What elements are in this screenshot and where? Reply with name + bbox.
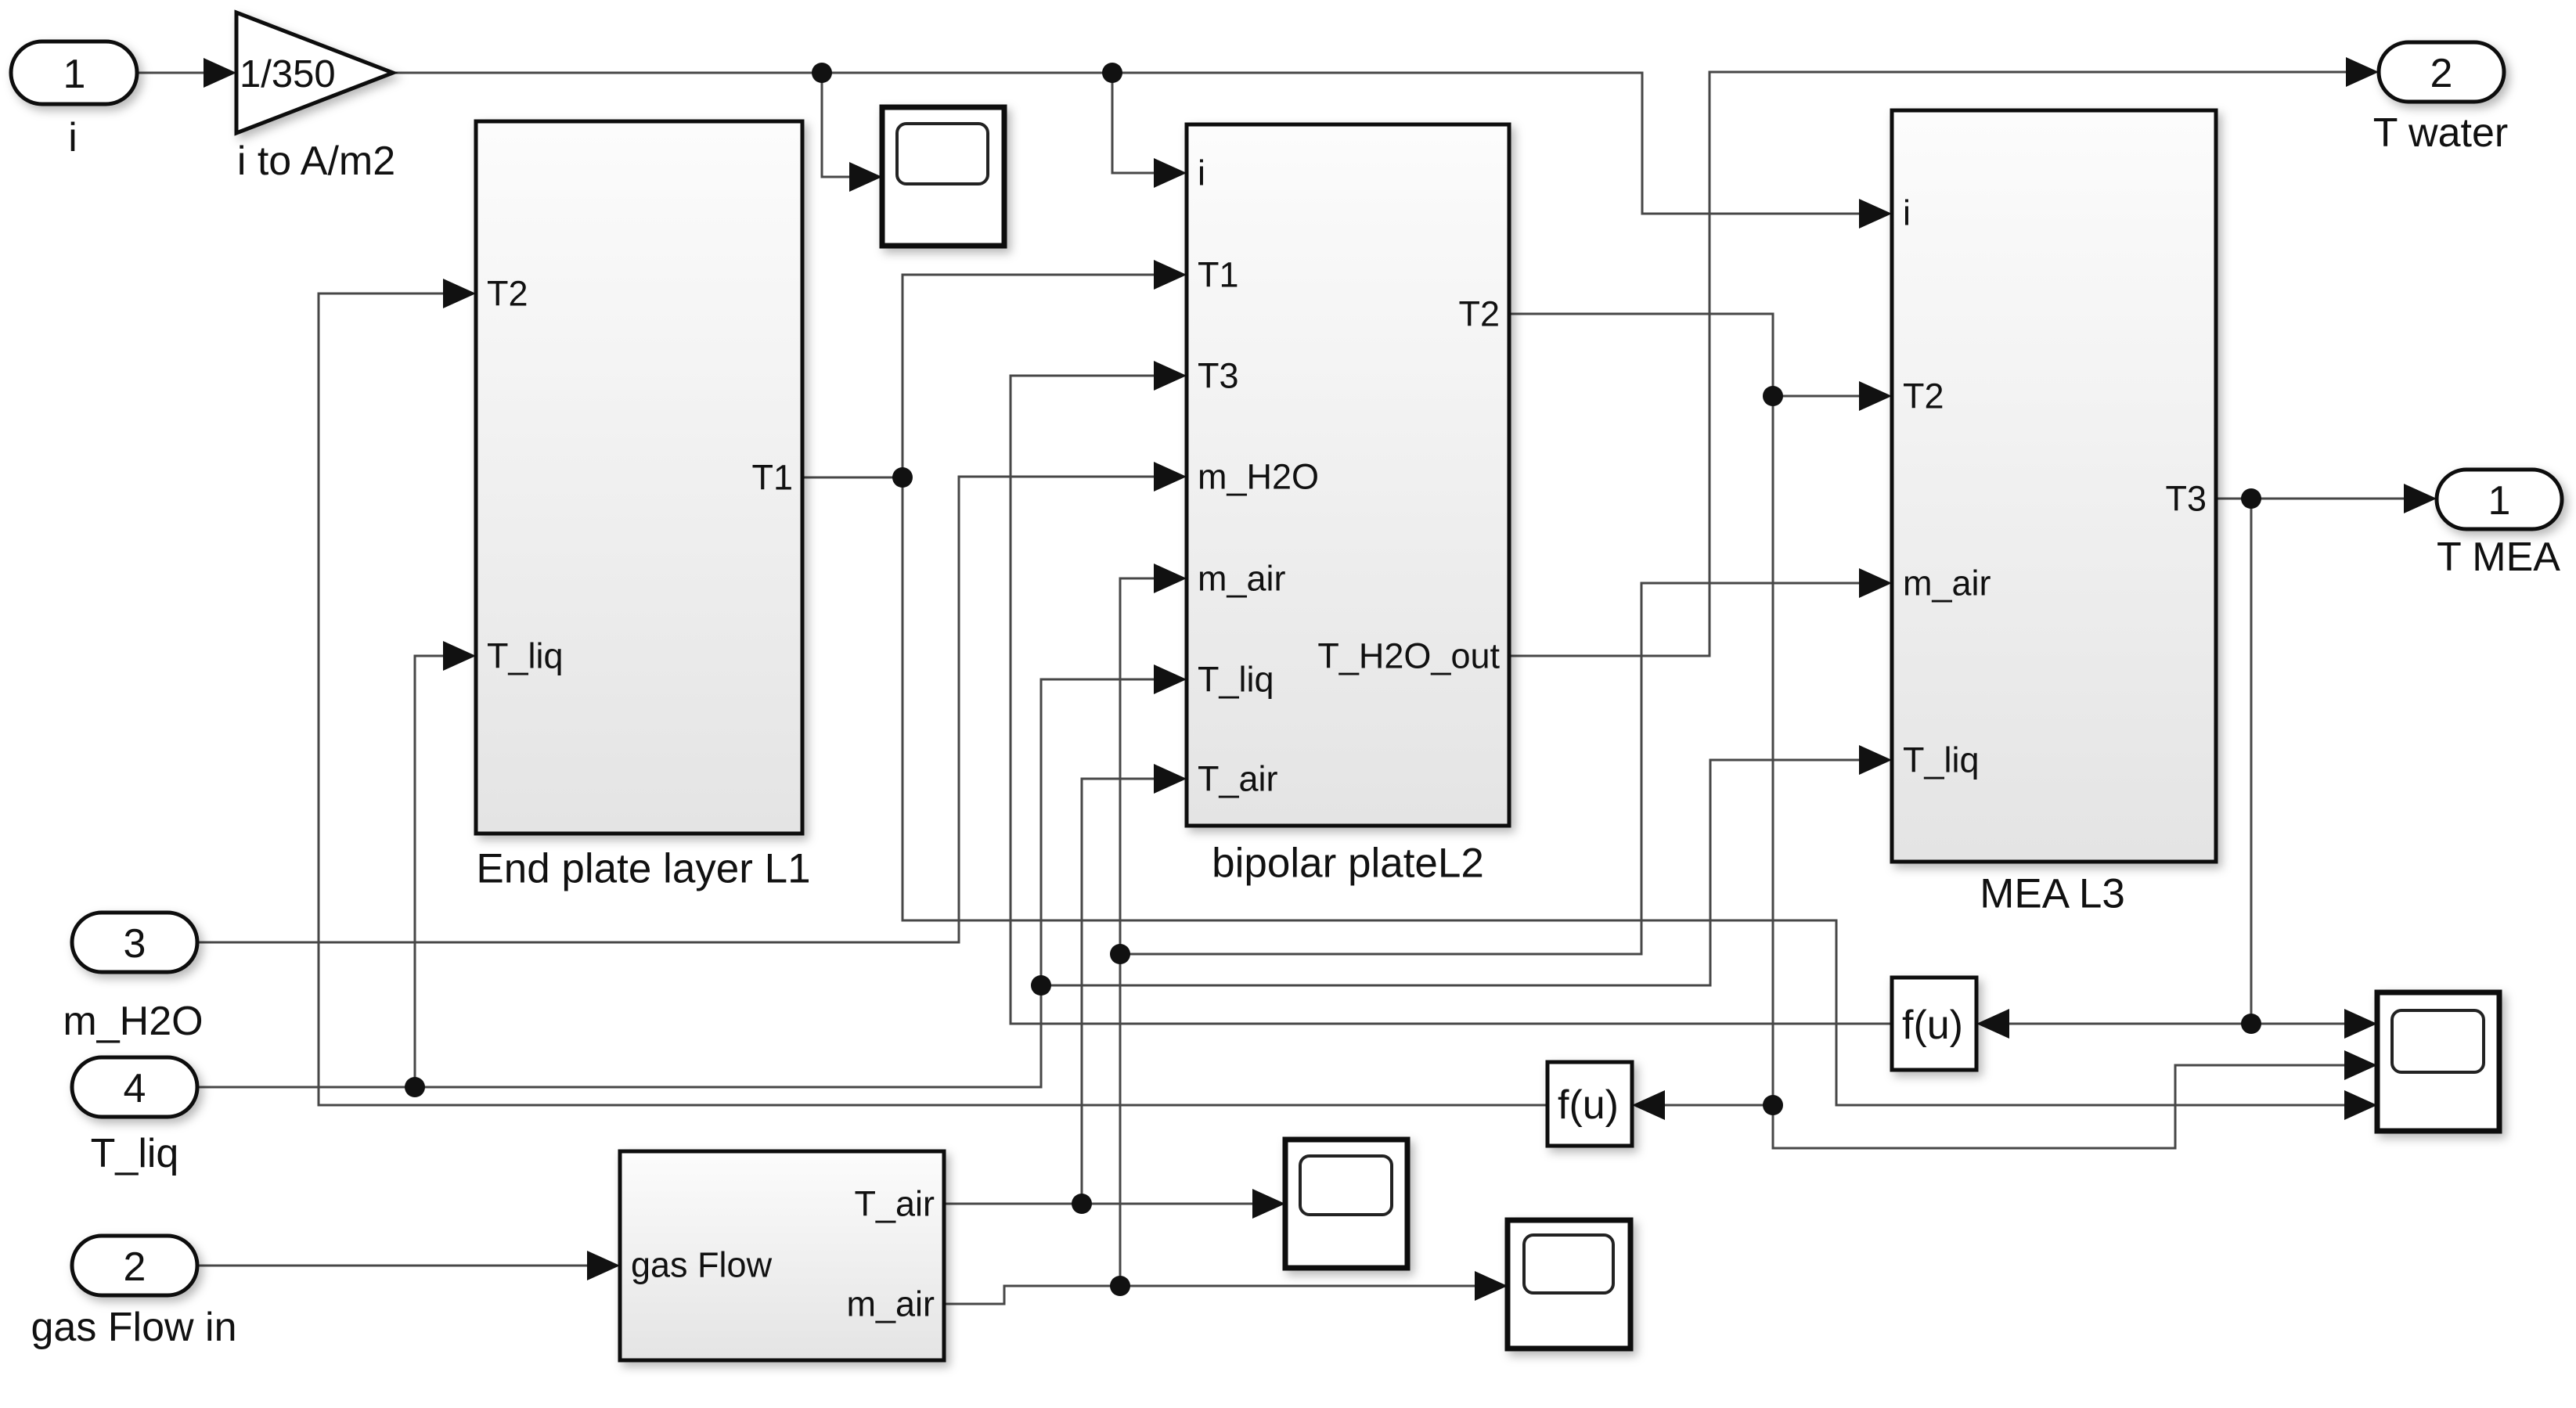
arrowhead into scope4 input1	[2344, 1009, 2377, 1039]
wire: T_liq inport 4	[197, 656, 1863, 1087]
arrowhead into outport T water	[2346, 57, 2379, 87]
svg-text:T_liq: T_liq	[91, 1131, 179, 1176]
svg-text:2: 2	[124, 1244, 146, 1290]
svg-text:T_liq: T_liq	[487, 636, 564, 676]
inport 3 (m_H2O)	[63, 913, 203, 1044]
wire: f(u)1 output to L2 T3 input	[1011, 376, 1892, 1024]
scope 4 (3 inputs)	[2377, 992, 2499, 1131]
scope 1	[882, 107, 1004, 246]
wire: gain output main i line	[393, 73, 1863, 214]
svg-text:T1: T1	[751, 458, 793, 498]
arrowhead into MEA m_air	[1859, 568, 1892, 598]
subsystem: End plate layer L1	[476, 121, 811, 892]
subsystem: bipolar plateL2	[1187, 124, 1509, 887]
wire: T_H2O_out to outport T water	[1509, 72, 2350, 656]
svg-text:T2: T2	[1903, 376, 1944, 416]
arrowhead into L1 T_liq	[443, 641, 476, 671]
arrowhead into L2 T_air	[1154, 764, 1187, 794]
wire: T1 output of L1	[802, 275, 2348, 1105]
svg-text:4: 4	[124, 1066, 146, 1111]
node: T_liq to L1 branch	[405, 1077, 425, 1097]
svg-text:gas Flow: gas Flow	[631, 1245, 773, 1285]
node: m_air to L2 branch	[1110, 1276, 1130, 1296]
svg-text:T MEA: T MEA	[2437, 535, 2560, 580]
svg-text:T_H2O_out: T_H2O_out	[1317, 636, 1500, 676]
svg-text:T1: T1	[1198, 255, 1239, 295]
svg-text:1: 1	[2488, 478, 2511, 524]
subsystem: gas Flow	[620, 1151, 944, 1360]
svg-text:i: i	[1198, 153, 1205, 193]
wire: i branch to bipolar plate i input	[1112, 73, 1158, 173]
wire: inport 2 to gas Flow	[197, 1265, 591, 1267]
arrowhead into L2 m_H2O	[1154, 462, 1187, 492]
arrowhead into L2 m_air	[1154, 564, 1187, 593]
svg-text:m_air: m_air	[1198, 559, 1286, 599]
svg-text:m_H2O: m_H2O	[63, 999, 203, 1044]
arrowhead into scope4 input3	[2344, 1090, 2377, 1120]
inport 4 (T_liq)	[72, 1057, 197, 1176]
wire: m_H2O inport 3	[197, 477, 1158, 942]
arrowhead into f(u)1	[1976, 1009, 2009, 1039]
svg-text:i: i	[1903, 193, 1911, 233]
node: T_air branch	[1072, 1194, 1092, 1214]
node: T3 to f(u)1 / scope branch	[2241, 1014, 2261, 1034]
Fcn block f(u) 1	[1892, 978, 1976, 1070]
svg-text:T water: T water	[2373, 110, 2508, 156]
svg-text:f(u): f(u)	[1558, 1082, 1619, 1128]
outport 1 (T MEA)	[2437, 470, 2562, 580]
scope 3	[1508, 1220, 1630, 1349]
arrowhead into L2 T3	[1154, 361, 1187, 391]
svg-text:1/350: 1/350	[240, 53, 336, 95]
svg-text:3: 3	[124, 921, 146, 967]
node: T_liq to MEA branch	[1031, 975, 1051, 996]
svg-text:End plate layer L1: End plate layer L1	[476, 846, 810, 892]
node: i branch to L2	[1102, 63, 1122, 83]
svg-text:m_air: m_air	[1903, 564, 1991, 603]
inport 2 (gas Flow in)	[31, 1236, 237, 1350]
arrowhead into gain	[204, 58, 236, 88]
node: T2 to MEA branch	[1763, 386, 1783, 406]
arrowhead into scope4 input2	[2344, 1050, 2377, 1080]
wire: i branch to scope1	[822, 73, 853, 177]
svg-text:T2: T2	[487, 274, 528, 314]
svg-text:MEA L3: MEA L3	[1980, 871, 2125, 917]
arrowhead into MEA T2	[1859, 381, 1892, 411]
svg-text:T2: T2	[1458, 294, 1500, 334]
wire: inport1 to gain	[137, 72, 208, 74]
svg-text:T_air: T_air	[854, 1184, 935, 1224]
svg-text:T_liq: T_liq	[1903, 740, 1980, 780]
svg-text:T_liq: T_liq	[1198, 660, 1274, 700]
svg-text:1: 1	[63, 52, 86, 97]
svg-text:T3: T3	[2165, 479, 2207, 519]
node: T2 to f(u)2 branch	[1763, 1095, 1783, 1115]
arrowhead into scope3	[1475, 1271, 1508, 1301]
arrowhead into scope2	[1252, 1189, 1285, 1219]
wire: T2 output of L2	[1509, 314, 2348, 1148]
wire: f(u)2 output to L1 T2 input	[319, 293, 1547, 1105]
arrowhead into L2 T1	[1154, 260, 1187, 290]
svg-text:m_air: m_air	[846, 1284, 935, 1324]
arrowhead into f(u)2	[1632, 1090, 1665, 1120]
wire: m_air output of gas Flow	[944, 578, 1863, 1304]
node: T3 branch down	[2241, 488, 2261, 509]
arrowhead into MEA T_liq	[1859, 745, 1892, 775]
svg-text:gas Flow in: gas Flow in	[31, 1305, 237, 1350]
wire: T_air output of gas Flow	[944, 779, 1256, 1204]
svg-text:m_H2O: m_H2O	[1198, 457, 1319, 497]
arrowhead into gas Flow	[587, 1251, 620, 1280]
subsystem: MEA L3	[1892, 110, 2216, 917]
arrowhead into L2 i	[1154, 158, 1187, 188]
svg-text:T_air: T_air	[1198, 759, 1278, 799]
svg-text:bipolar plateL2: bipolar plateL2	[1212, 841, 1484, 887]
outport 2 (T water)	[2373, 42, 2508, 156]
node: m_air to MEA branch	[1110, 944, 1130, 964]
arrowhead into scope1	[849, 162, 882, 192]
scope 2	[1285, 1140, 1407, 1268]
gain 1/350 (i to A/m2)	[236, 13, 395, 184]
arrowhead into MEA i	[1859, 199, 1892, 229]
node: T1 branch	[892, 467, 913, 488]
wire: T3 output of MEA	[2006, 499, 2408, 1024]
svg-text:T3: T3	[1198, 356, 1239, 396]
svg-text:i to A/m2: i to A/m2	[237, 139, 395, 184]
node: i branch to scope1	[812, 63, 832, 83]
svg-text:i: i	[68, 115, 77, 160]
inport 1 (i)	[11, 41, 137, 160]
svg-text:f(u): f(u)	[1902, 1003, 1963, 1048]
arrowhead into L2 T_liq	[1154, 664, 1187, 694]
Fcn block f(u) 2	[1547, 1062, 1632, 1146]
arrowhead into outport T MEA	[2404, 484, 2437, 513]
svg-text:2: 2	[2430, 51, 2453, 96]
arrowhead into L1 T2	[443, 279, 476, 308]
